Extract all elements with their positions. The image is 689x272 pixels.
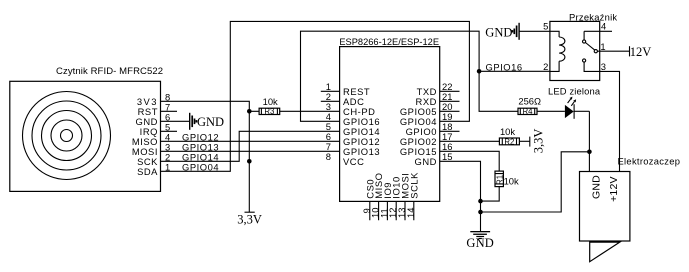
RFID reader module U2 box — [10, 66, 163, 191]
svg-text:GND: GND — [466, 236, 494, 250]
svg-text:GND: GND — [591, 175, 603, 199]
pin 5 IRQ stub — [161, 130, 178, 132]
ESP left pin labels — [343, 86, 380, 167]
svg-text:R3: R3 — [264, 107, 274, 116]
svg-text:Przekaźnik: Przekaźnik — [569, 11, 617, 22]
svg-text:GND: GND — [415, 156, 437, 167]
junction dot GND/R1 — [478, 199, 483, 204]
ESP right pin stubs 22,21,20,18 — [440, 91, 460, 131]
ESP bottom pin stubs 9-14 — [370, 201, 414, 220]
svg-text:10k: 10k — [500, 126, 515, 137]
svg-text:10k: 10k — [504, 175, 519, 186]
ESP right pin labels — [400, 86, 437, 167]
strike latch triangle — [590, 242, 620, 262]
RFID pin name labels — [132, 96, 158, 177]
wire SDA to GPIO04 (over the top) — [161, 21, 470, 171]
svg-text:2: 2 — [543, 61, 548, 72]
antenna coil circles — [23, 92, 111, 180]
svg-text:12V: 12V — [630, 45, 652, 59]
ground symbol at RFID pin 6 — [190, 113, 197, 130]
wire MOSI to GPIO13 — [161, 150, 340, 152]
wire ground to LED cathode / strike GND — [481, 152, 590, 212]
relay pin 1 wire to 12V — [597, 50, 629, 52]
ESP bottom pin labels — [364, 172, 419, 199]
svg-text:14: 14 — [405, 208, 416, 218]
junction dot rail/VCC — [247, 159, 252, 164]
svg-text:GPIO04: GPIO04 — [182, 161, 219, 172]
svg-text:3: 3 — [601, 61, 606, 72]
svg-text:Elektrozaczep: Elektrozaczep — [618, 155, 681, 166]
wire GPIO16 to relay coil (over the top) — [301, 31, 550, 121]
wire LED cathode down to strike GND — [588, 111, 590, 171]
junction dot rail/R3 — [247, 109, 252, 114]
ESP left pin numbers — [326, 81, 331, 162]
ground symbol at relay pin 5 — [512, 23, 519, 40]
junction dot GND/strike wire — [478, 210, 483, 215]
relay pin 3 wire down to strike +12V — [600, 71, 620, 171]
wire SCK to GPIO14 — [161, 131, 340, 161]
svg-text:3,3V: 3,3V — [531, 129, 545, 154]
svg-text:3,3V: 3,3V — [237, 212, 262, 226]
relay coil — [550, 31, 565, 71]
svg-text:GND: GND — [485, 26, 512, 40]
relay switch contacts — [583, 31, 600, 71]
LED D1 green — [548, 86, 601, 119]
ESP right pin numbers — [442, 81, 452, 162]
svg-text:R2: R2 — [504, 137, 514, 146]
svg-text:ESP8266-12E/ESP-12E: ESP8266-12E/ESP-12E — [339, 37, 439, 47]
svg-text:1: 1 — [165, 161, 170, 172]
resistor R3 10k — [249, 96, 339, 116]
junction dot LED/GND wire — [587, 150, 592, 155]
ESP bottom pin numbers 9-14 — [361, 208, 416, 218]
resistor R2 10k pull-up — [440, 126, 530, 146]
ESP8266 module U1 box — [339, 37, 439, 202]
pin 7 RST stub — [161, 110, 178, 112]
svg-text:GPIO16: GPIO16 — [486, 61, 523, 72]
relay pin 5 wire to GND — [519, 30, 550, 32]
svg-text:R4: R4 — [523, 107, 534, 116]
svg-text:Czytnik RFID- MFRC522: Czytnik RFID- MFRC522 — [56, 66, 163, 77]
power terminal 3,3V — [245, 211, 255, 213]
svg-text:4: 4 — [601, 21, 606, 32]
12V power terminal — [629, 46, 631, 56]
svg-text:VCC: VCC — [343, 156, 364, 167]
junction dot GPIO16/LED branch — [477, 69, 482, 74]
svg-text:10k: 10k — [263, 96, 278, 107]
RFID pin numbers — [165, 91, 170, 172]
svg-text:SDA: SDA — [137, 166, 158, 177]
wire ESP GND pin 15 to ground — [440, 161, 481, 231]
ground symbol bottom — [470, 231, 490, 239]
svg-text:256Ω: 256Ω — [518, 96, 541, 107]
electric strike box — [580, 155, 681, 241]
wire GPIO15 to R1 — [440, 151, 500, 171]
ESP left pin stubs 1,2 — [321, 91, 340, 101]
svg-text:SCLK: SCLK — [408, 172, 419, 199]
resistor R1 10k pull-down (vertical) — [481, 171, 520, 201]
wire GPIO16 branch down to R4 — [479, 71, 518, 111]
svg-text:LED zielona: LED zielona — [548, 86, 601, 97]
relay K1 box — [550, 11, 618, 80]
wire 3V3 to 3.3V rail — [161, 101, 250, 212]
LED arrows — [568, 99, 575, 106]
wire MISO to GPIO12 — [161, 140, 340, 142]
svg-text:5: 5 — [543, 21, 548, 32]
svg-text:1: 1 — [600, 41, 605, 52]
svg-text:+12V: +12V — [608, 176, 620, 202]
pin 6 GND wire — [161, 120, 190, 122]
svg-text:15: 15 — [442, 151, 452, 162]
3,3V power terminal at R2 — [529, 137, 531, 147]
resistor R4 256 ohm — [518, 96, 565, 117]
svg-text:8: 8 — [326, 151, 331, 162]
relay pin 4 wire — [584, 30, 612, 32]
svg-text:GND: GND — [197, 115, 224, 129]
